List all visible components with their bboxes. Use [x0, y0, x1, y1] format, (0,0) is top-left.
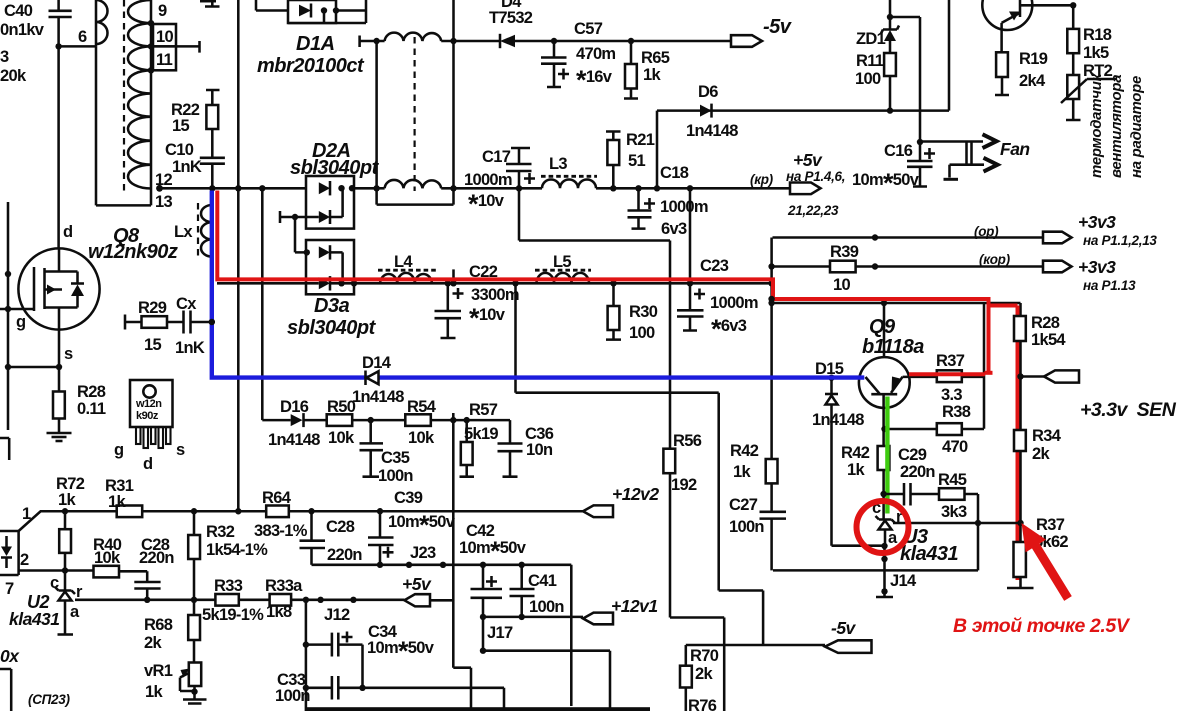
svg-text:c: c — [50, 574, 59, 592]
svg-text:1k: 1k — [145, 683, 163, 701]
svg-text:20k: 20k — [0, 67, 27, 85]
wire 3v3 rail left — [217, 282, 307, 285]
svg-text:1n4148: 1n4148 — [686, 122, 738, 140]
svg-text:1n4148: 1n4148 — [352, 388, 404, 406]
svg-text:L4: L4 — [394, 253, 413, 271]
svg-text:на Р1.1,2,13: на Р1.1,2,13 — [1083, 233, 1157, 248]
svg-text:g: g — [114, 441, 123, 459]
wire D2A to D3a link — [295, 217, 307, 252]
wire y=239 branch — [519, 188, 670, 617]
box corner bottom-left — [0, 669, 11, 711]
wire collector — [883, 303, 886, 357]
vertical wire x=262 — [261, 188, 264, 420]
resistor R21 — [606, 131, 655, 188]
svg-text:1000m: 1000m — [660, 198, 708, 216]
transistor Q9 — [859, 316, 924, 446]
resistor R33a — [265, 577, 303, 621]
svg-text:(СП23): (СП23) — [28, 692, 70, 707]
svg-text:1n4148: 1n4148 — [812, 411, 864, 429]
node R57 — [450, 417, 456, 423]
svg-text:470m: 470m — [576, 45, 615, 63]
capacitor C28a — [134, 536, 174, 603]
svg-text:100n: 100n — [729, 518, 764, 536]
svg-text:C40: C40 — [4, 2, 33, 20]
resistor R45 — [938, 471, 978, 570]
wire blue vertical — [212, 191, 865, 378]
flag -5v — [731, 16, 793, 47]
flag +5v bottom — [402, 574, 432, 606]
svg-text:10: 10 — [833, 276, 850, 294]
svg-text:(кр): (кр) — [750, 172, 774, 187]
wire +5v to flag — [596, 187, 790, 190]
svg-text:R33: R33 — [214, 577, 243, 595]
resistor R40 — [93, 536, 147, 582]
svg-text:ZD1: ZD1 — [856, 30, 886, 48]
svg-text:C10: C10 — [165, 141, 194, 159]
svg-text:3k3: 3k3 — [941, 503, 967, 521]
wire pin1 diagonal — [19, 511, 65, 531]
svg-text:3.3: 3.3 — [941, 386, 962, 404]
jumper J12 — [317, 597, 323, 603]
thermistor RT2 — [1061, 62, 1117, 120]
svg-text:12: 12 — [155, 171, 172, 189]
wire left drive rail — [8, 202, 59, 430]
resistor R34 — [1014, 427, 1062, 463]
svg-text:+3v3: +3v3 — [1078, 257, 1116, 277]
svg-text:C41: C41 — [528, 572, 557, 590]
node red trace step junction — [768, 296, 774, 302]
stub terminal above R22 — [205, 0, 220, 7]
node x516 — [512, 280, 518, 286]
svg-text:R42: R42 — [841, 444, 870, 462]
resistor R54 — [405, 398, 436, 447]
wire U3 ref line — [893, 522, 1021, 525]
svg-text:g: g — [16, 313, 25, 331]
vertical x=454 lower segment — [452, 413, 455, 601]
package TO-220 w12nk90z — [114, 380, 185, 473]
red arrow — [1022, 523, 1072, 601]
svg-text:2: 2 — [20, 551, 29, 569]
capacitor C39 — [368, 489, 456, 568]
svg-text:192: 192 — [671, 476, 697, 494]
resistor R65 — [624, 41, 670, 99]
svg-text:D14: D14 — [362, 354, 392, 372]
svg-text:J12: J12 — [324, 606, 350, 624]
svg-text:+3v3: +3v3 — [1078, 212, 1116, 232]
resistor R30 — [606, 280, 658, 342]
svg-text:1k: 1k — [847, 461, 865, 479]
svg-text:Fan: Fan — [1000, 139, 1030, 159]
inductor L5 — [535, 253, 591, 283]
svg-text:термодатчик: термодатчик — [1088, 72, 1105, 178]
node J12 left — [303, 597, 309, 603]
svg-text:C57: C57 — [574, 20, 603, 38]
svg-text:1k8: 1k8 — [266, 603, 292, 621]
svg-text:R45: R45 — [938, 471, 967, 489]
svg-text:D3a: D3a — [314, 295, 350, 317]
svg-text:5k19-1%: 5k19-1% — [202, 606, 264, 624]
svg-text:на Р1.13: на Р1.13 — [1083, 278, 1136, 293]
wire kor line — [772, 265, 1043, 268]
svg-text:w12n: w12n — [135, 398, 162, 410]
capacitor C23 — [677, 257, 758, 344]
svg-text:D15: D15 — [815, 360, 844, 378]
svg-text:100: 100 — [629, 324, 655, 342]
long vertical wire x=238 — [237, 0, 240, 511]
tap 12/13 node — [156, 185, 163, 192]
inductor Lx — [174, 203, 212, 258]
resistor R42 1k (on x=771.6) — [730, 442, 778, 483]
svg-text:(кор): (кор) — [979, 252, 1011, 267]
resistor R29 — [125, 299, 184, 354]
svg-text:b1118a: b1118a — [862, 336, 924, 358]
wire pin2 row — [19, 569, 94, 572]
svg-text:10k: 10k — [328, 429, 355, 447]
svg-text:21,22,23: 21,22,23 — [787, 203, 839, 218]
wire x=718.7 path to -5v — [719, 393, 763, 645]
diode D16 — [268, 398, 320, 449]
svg-text:D6: D6 — [698, 83, 718, 101]
capacitor C28 — [300, 508, 363, 565]
svg-text:100: 100 — [855, 70, 881, 88]
wire Q9 top line — [772, 302, 1021, 305]
svg-text:1k54-1%: 1k54-1% — [206, 541, 268, 559]
capacitor C33 — [275, 671, 504, 708]
flag +12v1 — [583, 596, 658, 624]
svg-text:L5: L5 — [553, 253, 571, 271]
svg-text:на Р1.4,6,: на Р1.4,6, — [786, 169, 845, 184]
flag +3v3 P1.1,2,13 — [1043, 212, 1157, 248]
main secondary wire 12/13 — [160, 187, 307, 190]
svg-text:w12nk90z: w12nk90z — [88, 241, 178, 263]
svg-text:10k: 10k — [408, 429, 435, 447]
svg-text:C16: C16 — [884, 142, 913, 160]
svg-text:2k: 2k — [1032, 445, 1050, 463]
transformer T secondary winding — [96, 0, 151, 205]
svg-text:10: 10 — [156, 28, 173, 46]
wire pin6 — [59, 45, 96, 48]
svg-text:3: 3 — [0, 48, 9, 66]
svg-text:+5v: +5v — [793, 150, 823, 170]
svg-text:51: 51 — [628, 152, 645, 170]
svg-text:1k: 1k — [58, 491, 76, 509]
wire J17 row — [483, 616, 583, 619]
svg-text:R28: R28 — [1031, 314, 1060, 332]
tap stub wire with end bar — [176, 41, 200, 53]
svg-text:0n1kv: 0n1kv — [0, 21, 45, 39]
wire R39 top line — [773, 236, 1044, 239]
inductor L4 — [378, 253, 437, 283]
svg-text:2k4: 2k4 — [1019, 72, 1046, 90]
resistor R68 — [144, 600, 200, 663]
optocoupler (cut at edge) — [0, 505, 31, 598]
capacitor C29 — [884, 446, 939, 506]
resistor R31 — [105, 477, 142, 517]
vertical x=454 upper — [452, 0, 455, 41]
resistor R19 — [995, 50, 1048, 95]
inductor L3 — [541, 155, 597, 188]
flag -5v bottom — [825, 618, 872, 653]
transformer T primary winding — [96, 0, 108, 205]
wire green trace — [885, 397, 889, 514]
svg-text:1k54: 1k54 — [1031, 331, 1066, 349]
label thermal sensor (rotated) — [1088, 72, 1145, 178]
capacitor C36 — [498, 425, 554, 477]
capacitor C34 — [306, 623, 435, 688]
svg-text:1n4148: 1n4148 — [268, 431, 320, 449]
svg-text:470: 470 — [942, 438, 968, 456]
node R42/C29 — [880, 491, 886, 497]
svg-text:2k: 2k — [144, 634, 162, 652]
resistor R64 — [254, 489, 308, 540]
wire x=305.9 down — [305, 600, 308, 711]
svg-text:C18: C18 — [660, 164, 689, 182]
svg-text:6v3: 6v3 — [661, 220, 687, 238]
wire +5v row through choke — [354, 187, 542, 190]
capacitor C41 — [510, 562, 565, 617]
svg-text:R54: R54 — [407, 398, 437, 416]
svg-text:vR1: vR1 — [144, 662, 173, 680]
svg-text:220n: 220n — [139, 549, 174, 567]
svg-text:0.11: 0.11 — [77, 400, 106, 418]
svg-text:1k: 1k — [643, 66, 661, 84]
resistor R37 5k62 — [1014, 516, 1069, 577]
svg-text:D16: D16 — [280, 398, 309, 416]
partial cap plate at top edge — [200, 0, 216, 2]
svg-text:d: d — [143, 455, 152, 473]
svg-text:C39: C39 — [394, 489, 423, 507]
svg-text:kla431: kla431 — [9, 609, 60, 629]
svg-text:Q9: Q9 — [869, 316, 896, 338]
resistor R22 — [171, 90, 220, 158]
resistor R50 — [327, 398, 356, 447]
svg-text:+3.3v SEN: +3.3v SEN — [1080, 399, 1177, 421]
wire red R37 row — [909, 372, 985, 376]
svg-text:383-1%: 383-1% — [254, 522, 308, 540]
resistor R32 — [188, 508, 268, 603]
svg-text:+5v: +5v — [402, 574, 432, 594]
ground — [47, 419, 72, 442]
transistor Q (fan driver) — [982, 0, 1076, 52]
svg-text:1k: 1k — [733, 463, 751, 481]
capacitor C10 — [165, 141, 225, 188]
svg-text:R37: R37 — [936, 352, 965, 370]
svg-text:6: 6 — [78, 28, 87, 46]
wire black sense column — [1007, 341, 1034, 588]
svg-text:100n: 100n — [529, 598, 564, 616]
red wire branch (behind bodies) — [985, 371, 993, 375]
svg-text:+12v2: +12v2 — [612, 484, 659, 504]
svg-text:J14: J14 — [890, 572, 917, 590]
svg-text:R11: R11 — [856, 52, 884, 70]
resistor R33 — [202, 577, 264, 624]
svg-text:Cx: Cx — [176, 295, 197, 313]
svg-text:3300m: 3300m — [471, 286, 519, 304]
svg-text:R37: R37 — [1036, 516, 1065, 534]
wire D16 row — [262, 420, 510, 443]
svg-text:10k: 10k — [94, 549, 121, 567]
svg-text:1nK: 1nK — [172, 158, 202, 176]
svg-text:R64: R64 — [262, 489, 292, 507]
capacitor C17 — [464, 148, 535, 219]
svg-text:Lx: Lx — [174, 223, 193, 241]
capacitor C35 — [360, 420, 414, 485]
svg-text:R32: R32 — [206, 523, 235, 541]
svg-text:C17: C17 — [482, 148, 511, 166]
resistor R56 — [663, 432, 701, 494]
shunt regulator U3 kla431 — [872, 499, 959, 565]
wire 3v3 rail mid — [354, 282, 772, 285]
svg-text:-5v: -5v — [763, 16, 793, 38]
diode D4 — [489, 0, 533, 48]
svg-text:T7532: T7532 — [489, 9, 533, 27]
svg-text:220n: 220n — [900, 463, 935, 481]
diode D1A — [257, 0, 365, 77]
svg-text:1k: 1k — [108, 493, 126, 511]
svg-text:10n: 10n — [526, 441, 553, 459]
vertical x=454 stub to 3v3 rail — [452, 269, 455, 283]
resistor R72 — [56, 475, 85, 571]
svg-text:mbr20100ct: mbr20100ct — [257, 55, 365, 77]
wire -5v line — [686, 644, 825, 647]
diode D14 — [352, 354, 404, 406]
svg-text:1k5: 1k5 — [1083, 44, 1109, 62]
svg-text:C35: C35 — [381, 449, 410, 467]
svg-text:d: d — [63, 223, 72, 241]
svg-text:C23: C23 — [700, 257, 729, 275]
wire R37 row — [903, 303, 984, 429]
wire red vertical at Lx — [217, 191, 988, 373]
capacitor C40 — [0, 0, 72, 46]
svg-text:1000m: 1000m — [710, 294, 758, 312]
flag +12v2 — [583, 484, 659, 517]
shunt regulator U2 kla431 — [9, 571, 83, 635]
svg-text:100n: 100n — [275, 687, 310, 705]
svg-text:на радиаторе: на радиаторе — [1128, 76, 1145, 178]
svg-text:7: 7 — [5, 580, 14, 598]
ground bus bar — [306, 707, 650, 711]
svg-text:J17: J17 — [487, 624, 513, 642]
svg-text:R21: R21 — [626, 131, 655, 149]
wire R28 top — [1019, 303, 1022, 316]
svg-text:J23: J23 — [410, 544, 436, 562]
svg-text:R34: R34 — [1032, 427, 1062, 445]
svg-text:k90z: k90z — [136, 410, 159, 422]
wire x=670 lower — [670, 618, 724, 711]
node C35 — [368, 417, 374, 423]
wire D1A top — [256, 0, 366, 23]
svg-text:R56: R56 — [673, 432, 702, 450]
zener ZD1 — [856, 17, 899, 53]
resistor R57 — [460, 401, 499, 477]
resistor R70 — [680, 645, 719, 711]
svg-text:s: s — [176, 441, 185, 459]
box corner (cut component) — [0, 438, 9, 460]
tap 9 node — [148, 20, 154, 26]
diode D15 — [812, 360, 885, 546]
resistor R11 — [855, 52, 896, 111]
wire top -5v winding row — [360, 36, 499, 48]
svg-text:R18: R18 — [1083, 26, 1112, 44]
svg-text:R68: R68 — [144, 616, 173, 634]
svg-text:L3: L3 — [549, 155, 567, 173]
svg-text:R38: R38 — [942, 403, 971, 421]
svg-text:R33a: R33a — [265, 577, 303, 595]
wire U2 ref line — [75, 599, 404, 602]
resistor R42 (Q9 base) — [841, 444, 889, 519]
svg-text:100n: 100n — [378, 467, 413, 485]
flag +3.3v SEN — [1017, 370, 1176, 421]
svg-text:15: 15 — [172, 117, 189, 135]
svg-text:9: 9 — [158, 2, 167, 20]
flag +3v3 P1.13 — [1043, 257, 1136, 293]
tap 10 box — [153, 24, 176, 46]
capacitor C57 — [541, 20, 615, 95]
resistor R28 — [53, 383, 106, 419]
wire C41 box right — [570, 565, 573, 706]
node U3 anode junction — [881, 543, 887, 549]
svg-text:sbl3040pt: sbl3040pt — [287, 317, 377, 339]
svg-text:C28: C28 — [326, 518, 355, 536]
svg-text:(ор): (ор) — [974, 224, 999, 239]
svg-text:13: 13 — [155, 193, 172, 211]
svg-text:2k: 2k — [695, 665, 713, 683]
svg-text:1nK: 1nK — [175, 339, 205, 357]
transistor Q8 — [0, 248, 100, 331]
svg-text:-5v: -5v — [831, 618, 857, 638]
svg-text:C27: C27 — [729, 496, 758, 514]
svg-text:R39: R39 — [830, 243, 859, 261]
svg-text:220n: 220n — [327, 546, 362, 564]
node Cx junction on blue trace — [209, 319, 215, 325]
resistor R28 1k54 — [1014, 314, 1066, 349]
svg-text:1000m: 1000m — [464, 171, 512, 189]
transformer core dashed — [123, 0, 125, 194]
svg-text:R76: R76 — [688, 697, 717, 711]
svg-text:D1A: D1A — [296, 33, 335, 55]
capacitor C22 — [435, 263, 519, 338]
svg-text:R28: R28 — [77, 383, 106, 401]
wire J14 — [883, 546, 886, 591]
main bottom wire y=511 — [65, 510, 583, 513]
wire x=771.6 vertical — [770, 238, 773, 460]
wire — [515, 40, 731, 43]
diode D6 — [686, 83, 738, 140]
wire drain — [57, 46, 60, 248]
potentiometer vR1 — [144, 662, 207, 704]
wire source — [58, 330, 61, 392]
wire x516 down — [516, 283, 719, 392]
svg-text:R65: R65 — [641, 49, 670, 67]
wire — [890, 0, 920, 142]
connector Fan — [920, 134, 1030, 179]
jumper J23 — [406, 562, 412, 568]
wire J23 row — [312, 564, 572, 567]
wire J17 down row — [483, 617, 610, 708]
svg-text:+12v1: +12v1 — [611, 596, 658, 616]
red circle mark — [857, 501, 909, 553]
wire — [657, 0, 949, 188]
resistor R39 — [830, 243, 859, 294]
resistor R38 — [881, 403, 984, 456]
node pin6 — [55, 43, 61, 49]
node x238 bottom junction — [235, 508, 241, 514]
capacitor C16 — [852, 139, 935, 198]
flag +5v — [750, 150, 845, 218]
svg-text:11: 11 — [156, 51, 173, 69]
svg-text:R30: R30 — [629, 303, 658, 321]
svg-text:R70: R70 — [690, 647, 719, 665]
